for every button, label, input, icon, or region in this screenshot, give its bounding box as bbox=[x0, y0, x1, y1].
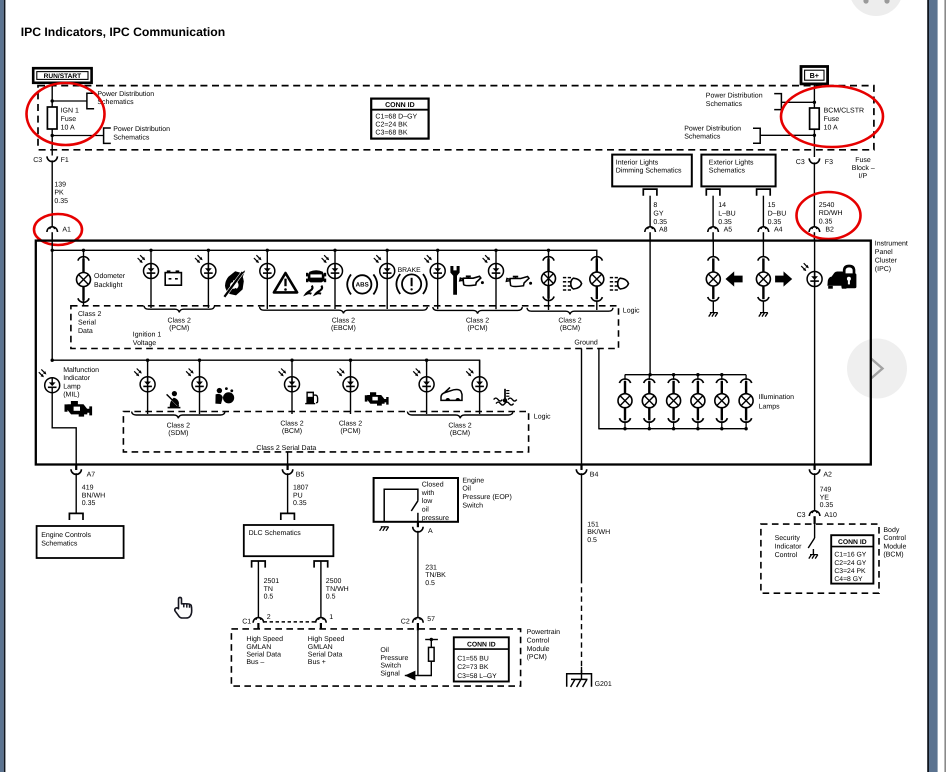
wire 151 BK/WH 0.5 bbox=[581, 473, 583, 578]
svg-text:C3: C3 bbox=[796, 159, 805, 166]
svg-text:(BCM): (BCM) bbox=[560, 324, 580, 332]
svg-text:Logic: Logic bbox=[534, 412, 551, 420]
svg-text:Schematics: Schematics bbox=[709, 167, 746, 175]
airbag system lamp bbox=[134, 371, 138, 375]
red highlight ellipse around fuse F1 bbox=[27, 83, 105, 145]
svg-text:Backlight: Backlight bbox=[94, 281, 122, 289]
svg-text:Serial: Serial bbox=[78, 319, 96, 327]
engine controls schematics box bbox=[37, 526, 124, 558]
wire 749 YE 0.35 bbox=[814, 473, 816, 511]
svg-text:Control: Control bbox=[883, 534, 906, 542]
connector C3 F1 bbox=[47, 156, 57, 161]
svg-text:0.35: 0.35 bbox=[819, 219, 833, 226]
power distribution schematics tap 1 right bbox=[781, 101, 814, 103]
dlc schematics box bbox=[244, 525, 334, 556]
wire RUN/START to fuse bbox=[51, 83, 53, 107]
svg-text:ABS: ABS bbox=[356, 282, 369, 289]
headlamp telltale icon right bbox=[610, 277, 613, 279]
svg-text:C3=24 PK: C3=24 PK bbox=[834, 568, 866, 575]
svg-text:(EBCM): (EBCM) bbox=[331, 324, 356, 332]
svg-text:Interior Lights: Interior Lights bbox=[616, 159, 659, 167]
junction dots left fuse bbox=[51, 99, 54, 102]
svg-text:8: 8 bbox=[653, 202, 657, 209]
svg-text:15: 15 bbox=[768, 202, 776, 209]
brace class 2 bcm row2 bbox=[407, 412, 513, 419]
bracket below dlc right bbox=[314, 561, 328, 568]
headlamp telltale icon left bbox=[563, 277, 566, 279]
svg-text:Class 2: Class 2 bbox=[280, 419, 303, 427]
svg-text:TN/BK: TN/BK bbox=[425, 571, 446, 579]
svg-text:14: 14 bbox=[718, 202, 726, 209]
svg-text:2501: 2501 bbox=[264, 578, 280, 585]
svg-text:C2=24 BK: C2=24 BK bbox=[375, 122, 407, 129]
svg-text:2500: 2500 bbox=[326, 578, 342, 585]
bracket to dlc schematics bbox=[281, 513, 295, 520]
svg-text:IGN 1: IGN 1 bbox=[61, 108, 79, 115]
warning telltale icon bbox=[274, 273, 297, 292]
ground G201 bbox=[581, 667, 583, 679]
CONN ID table bcm bbox=[831, 535, 873, 583]
illumination lamp 1 bbox=[624, 375, 626, 380]
liftgate lamp wire bbox=[426, 360, 428, 414]
svg-text:Serial Data: Serial Data bbox=[246, 650, 281, 658]
svg-text:YE: YE bbox=[820, 494, 830, 501]
svg-text:GMLAN: GMLAN bbox=[246, 644, 271, 651]
MIL engine icon bbox=[65, 401, 93, 417]
svg-text:A10: A10 bbox=[824, 512, 837, 519]
svg-text:A5: A5 bbox=[724, 226, 733, 233]
coolant temp icon bbox=[504, 389, 506, 399]
svg-text:Logic: Logic bbox=[623, 307, 640, 315]
svg-text:Lamps: Lamps bbox=[759, 404, 781, 411]
brace class 2 pcm 2 bbox=[433, 307, 523, 314]
illumination bottom bus bbox=[599, 428, 746, 430]
cluster telltale lamp 2 wire bbox=[207, 250, 209, 308]
sdm lamp 2 wire bbox=[199, 360, 201, 414]
svg-text:BN/WH: BN/WH bbox=[82, 491, 105, 499]
fuse block dashed box bbox=[38, 86, 874, 150]
svg-text:749: 749 bbox=[820, 487, 832, 494]
red highlight ellipse around connector B2 bbox=[797, 192, 861, 239]
svg-text:C3=58 L–GY: C3=58 L–GY bbox=[457, 673, 497, 680]
viewer left blue frame strip bbox=[0, 0, 4, 772]
svg-text:Engine: Engine bbox=[462, 476, 484, 484]
svg-text:(IPC): (IPC) bbox=[875, 265, 891, 273]
cluster telltale lamp 6 bbox=[424, 258, 428, 262]
svg-text:Schematics: Schematics bbox=[113, 133, 150, 141]
svg-text:B+: B+ bbox=[810, 71, 819, 80]
top-right partial button circle bbox=[849, 0, 903, 16]
left turn arrow icon bbox=[726, 271, 743, 286]
service wrench telltale icon bbox=[450, 266, 459, 295]
airbag icon bbox=[217, 388, 222, 393]
svg-text:2: 2 bbox=[267, 614, 271, 621]
dashed wire to G201 bbox=[581, 578, 583, 674]
right turn telltale bulb bbox=[758, 257, 769, 261]
security indicator lamp wire B2 bbox=[814, 241, 816, 465]
svg-text:A7: A7 bbox=[87, 472, 96, 479]
signal arrow bbox=[405, 671, 416, 681]
svg-text:low: low bbox=[422, 497, 433, 505]
svg-text:GMLAN: GMLAN bbox=[308, 644, 333, 651]
svg-text:Power Distribution: Power Distribution bbox=[706, 92, 763, 100]
cluster telltale lamp 1 wire bbox=[150, 250, 152, 308]
power distribution schematics tap 1 left bbox=[52, 100, 87, 102]
connector A eop bbox=[417, 522, 419, 527]
svg-text:Serial Data: Serial Data bbox=[308, 650, 343, 658]
bracket below dlc left bbox=[252, 561, 266, 568]
connector B5 bbox=[287, 465, 289, 471]
cluster telltale lamp 3 wire bbox=[266, 250, 268, 309]
left turn telltale bulb bbox=[708, 257, 719, 261]
junction dots right fuse bbox=[813, 101, 816, 104]
wire below fuse F3 bbox=[813, 129, 815, 157]
left turn ground bbox=[709, 313, 712, 317]
row1 bus wire ignition 1 voltage bbox=[52, 250, 597, 258]
svg-text:C3=68 BK: C3=68 BK bbox=[375, 130, 407, 137]
check engine icon bbox=[365, 392, 389, 405]
mouse cursor bbox=[175, 597, 192, 618]
cluster bulb lamp 8 wire bbox=[548, 250, 550, 310]
svg-text:1807: 1807 bbox=[293, 485, 309, 492]
logic dashed box row1 bbox=[71, 306, 619, 349]
svg-text:L–BU: L–BU bbox=[718, 211, 736, 218]
svg-text:A1: A1 bbox=[62, 226, 71, 233]
engine oil pressure switch box bbox=[374, 478, 458, 522]
pcm internal signal wire bbox=[417, 630, 419, 675]
svg-text:0.35: 0.35 bbox=[82, 500, 96, 507]
ground wire to illumination lamps bbox=[599, 349, 625, 429]
illumination top bus dots bbox=[648, 373, 651, 376]
cluster bulb lamp 8 bbox=[543, 257, 554, 261]
illumination lamp 2 bbox=[648, 375, 650, 380]
cluster telltale lamp 5 wire bbox=[386, 250, 388, 309]
svg-text:Class 2: Class 2 bbox=[339, 419, 362, 427]
check engine lamp bbox=[337, 371, 341, 375]
svg-text:Engine Controls: Engine Controls bbox=[41, 531, 91, 539]
connector A1 bbox=[47, 227, 58, 232]
svg-text:C1=55 BU: C1=55 BU bbox=[457, 656, 489, 663]
fuel icon bbox=[306, 392, 314, 404]
svg-text:C1: C1 bbox=[242, 618, 251, 625]
svg-text:Class 2: Class 2 bbox=[558, 316, 581, 324]
svg-text:Schematics: Schematics bbox=[41, 539, 78, 547]
svg-text:Signal: Signal bbox=[380, 669, 400, 677]
connector A4 bbox=[758, 227, 769, 232]
Interior Lights Dimming Schematics box bbox=[612, 155, 692, 187]
airbag system lamp wire bbox=[147, 360, 149, 414]
svg-text:(PCM): (PCM) bbox=[340, 427, 360, 435]
powertrain control module dashed box bbox=[231, 629, 520, 686]
svg-text:C3: C3 bbox=[797, 512, 806, 519]
instrument panel cluster box bbox=[36, 241, 871, 465]
svg-text:C2: C2 bbox=[401, 618, 410, 625]
svg-text:PU: PU bbox=[293, 492, 303, 499]
svg-text:CONN ID: CONN ID bbox=[385, 102, 415, 109]
svg-text:0.5: 0.5 bbox=[425, 580, 435, 587]
wire 14 L-BU 0.35 bbox=[712, 196, 714, 227]
svg-text:Oil: Oil bbox=[462, 485, 471, 493]
svg-text:57: 57 bbox=[427, 616, 435, 623]
bracket under exterior lights box left bbox=[706, 189, 720, 196]
svg-text:Control: Control bbox=[775, 551, 798, 559]
svg-text:(BCM): (BCM) bbox=[883, 551, 903, 559]
seat belt icon bbox=[172, 391, 177, 396]
svg-text:419: 419 bbox=[82, 485, 94, 492]
svg-text:Power Distribution: Power Distribution bbox=[97, 90, 154, 98]
svg-text:0.5: 0.5 bbox=[264, 594, 274, 601]
coolant lamp wire bbox=[479, 360, 481, 414]
brace class 2 ebcm bbox=[260, 307, 428, 314]
Exterior Lights Schematics box bbox=[701, 155, 775, 187]
connector A2 bbox=[813, 465, 815, 471]
svg-text:Power Distribution: Power Distribution bbox=[684, 124, 741, 132]
cluster telltale lamp 1 bbox=[138, 258, 142, 262]
svg-text:GY: GY bbox=[653, 211, 663, 218]
wire 8 GY 0.35 bbox=[649, 196, 651, 227]
svg-text:Class 2: Class 2 bbox=[168, 316, 191, 324]
svg-text:F3: F3 bbox=[825, 159, 833, 166]
svg-text:0.35: 0.35 bbox=[653, 219, 667, 226]
svg-text:Class 2: Class 2 bbox=[466, 316, 489, 324]
illumination bottom bus dots bbox=[623, 427, 626, 430]
svg-text:231: 231 bbox=[425, 564, 437, 571]
liftgate car icon bbox=[441, 389, 462, 400]
svg-text:151: 151 bbox=[587, 521, 599, 528]
security telltale icon bbox=[225, 271, 244, 295]
fuse F3 BCM/CLSTR 10A bbox=[810, 108, 820, 129]
brace class 2 sdm bbox=[132, 412, 225, 419]
illumination lamp 4 bbox=[697, 375, 699, 380]
right turn ground bbox=[759, 313, 762, 317]
svg-text:Switch: Switch bbox=[462, 501, 483, 509]
svg-text:pressure: pressure bbox=[422, 515, 449, 522]
svg-text:IPC Indicators, IPC Communicat: IPC Indicators, IPC Communication bbox=[21, 25, 226, 39]
svg-text:0.35: 0.35 bbox=[718, 219, 732, 226]
connector C1 pin 2 bbox=[253, 618, 264, 623]
svg-text:(BCM): (BCM) bbox=[450, 429, 470, 437]
svg-text:Security: Security bbox=[775, 534, 801, 542]
svg-text:C2=73 BK: C2=73 BK bbox=[457, 664, 489, 671]
svg-text:BRAKE: BRAKE bbox=[398, 267, 422, 274]
svg-text:139: 139 bbox=[54, 181, 66, 188]
ABS telltale icon bbox=[347, 274, 351, 294]
svg-text:Ignition 1: Ignition 1 bbox=[133, 331, 162, 339]
red highlight ellipse around connector A1 bbox=[34, 214, 82, 245]
connector B2 bbox=[809, 227, 820, 232]
svg-text:Class 2: Class 2 bbox=[167, 421, 190, 429]
svg-text:Ground: Ground bbox=[574, 339, 597, 347]
svg-text:Exterior Lights: Exterior Lights bbox=[709, 159, 754, 167]
svg-text:Class 2: Class 2 bbox=[448, 421, 471, 429]
svg-text:CONN ID: CONN ID bbox=[838, 539, 867, 546]
svg-text:I/P: I/P bbox=[859, 172, 868, 180]
svg-text:Cluster: Cluster bbox=[875, 256, 898, 264]
svg-text:A4: A4 bbox=[774, 226, 783, 233]
svg-text:Module: Module bbox=[883, 542, 906, 550]
connector A8 bbox=[645, 227, 656, 232]
svg-text:Voltage: Voltage bbox=[133, 339, 156, 347]
cluster telltale lamp 3 bbox=[254, 258, 258, 262]
svg-text:Body: Body bbox=[883, 526, 899, 534]
svg-text:Module: Module bbox=[527, 645, 550, 653]
svg-text:Lamp: Lamp bbox=[63, 383, 81, 390]
body control module dashed box bbox=[761, 524, 879, 593]
cluster telltale lamp 4 bbox=[322, 258, 326, 262]
svg-text:Fuse: Fuse bbox=[824, 116, 840, 123]
svg-text:Malfunction: Malfunction bbox=[63, 366, 99, 374]
right turn arrow icon bbox=[775, 271, 792, 286]
cluster telltale lamp 6 wire bbox=[437, 250, 439, 309]
svg-text:Powertrain: Powertrain bbox=[527, 628, 561, 636]
svg-text:0.35: 0.35 bbox=[768, 219, 782, 226]
svg-text:Indicator: Indicator bbox=[63, 374, 91, 382]
bracket under exterior lights box right bbox=[757, 189, 771, 196]
brace class 2 bcm row1 bbox=[527, 308, 613, 315]
svg-text:Indicator: Indicator bbox=[775, 543, 803, 551]
cluster telltale lamp 5 bbox=[374, 258, 378, 262]
cluster telltale lamp 7 wire bbox=[495, 250, 497, 309]
svg-text:C3: C3 bbox=[33, 157, 42, 164]
svg-text:0.35: 0.35 bbox=[54, 198, 68, 205]
svg-text:(PCM): (PCM) bbox=[169, 324, 189, 332]
oil can telltale icon 1 bbox=[460, 276, 481, 285]
fuel lamp wire bbox=[291, 360, 293, 414]
viewer right frame strips bbox=[927, 0, 929, 772]
bcm internal switch bbox=[814, 524, 816, 538]
svg-text:Schematics: Schematics bbox=[684, 133, 721, 141]
illumination lamp 6 bbox=[745, 375, 747, 380]
connector C3 F3 bbox=[809, 158, 819, 163]
cluster telltale lamp 4 wire bbox=[334, 250, 336, 309]
svg-text:2540: 2540 bbox=[819, 202, 835, 209]
svg-text:Block –: Block – bbox=[852, 164, 875, 172]
RUN/START box bbox=[33, 68, 91, 83]
svg-text:D–BU: D–BU bbox=[768, 211, 787, 218]
svg-text:Illumination: Illumination bbox=[759, 393, 795, 401]
svg-text:Odometer: Odometer bbox=[94, 272, 126, 280]
security car lock icon bbox=[827, 272, 851, 286]
eop internal ground bbox=[380, 527, 383, 531]
svg-text:Closed: Closed bbox=[422, 481, 444, 489]
svg-text:Switch: Switch bbox=[380, 662, 401, 670]
wire 2501 TN 0.5 bbox=[257, 561, 259, 618]
svg-text:PK: PK bbox=[54, 190, 64, 197]
bracket to engine controls bbox=[69, 513, 83, 520]
svg-text:Class 2 Serial Data: Class 2 Serial Data bbox=[256, 444, 316, 452]
eop internal circuit bbox=[384, 489, 418, 522]
fuel lamp bbox=[279, 371, 283, 375]
svg-text:RD/WH: RD/WH bbox=[819, 209, 843, 217]
svg-text:10 A: 10 A bbox=[61, 124, 75, 131]
svg-text:Instrument: Instrument bbox=[875, 241, 908, 248]
power distribution schematics tap 2 left bbox=[52, 135, 103, 137]
svg-text:10 A: 10 A bbox=[824, 124, 838, 131]
svg-text:Schematics: Schematics bbox=[706, 100, 743, 108]
svg-text:TN: TN bbox=[264, 586, 273, 593]
svg-text:(MIL): (MIL) bbox=[63, 391, 79, 399]
illumination lamp 5 bbox=[721, 375, 723, 380]
svg-text:Pressure (EOP): Pressure (EOP) bbox=[462, 493, 511, 501]
right turn telltale wire bbox=[762, 241, 764, 257]
svg-text:B2: B2 bbox=[825, 226, 834, 233]
svg-text:A: A bbox=[428, 528, 433, 535]
row2 bus junction dots bbox=[51, 359, 54, 362]
cluster bulb lamp 9 bbox=[591, 257, 602, 261]
connector C2 pin 57 bbox=[413, 618, 424, 623]
dashed bus wire between pins bbox=[264, 621, 316, 623]
check engine lamp wire bbox=[350, 360, 352, 414]
coolant lamp bbox=[466, 371, 470, 375]
svg-text:Bus +: Bus + bbox=[308, 659, 326, 666]
svg-text:Oil: Oil bbox=[380, 646, 389, 654]
connector A7 bbox=[75, 465, 77, 471]
wire class2 to B5 bbox=[287, 452, 289, 465]
svg-text:G201: G201 bbox=[595, 681, 612, 688]
wire A8 to illumination bus bbox=[649, 241, 651, 375]
svg-text:DLC Schematics: DLC Schematics bbox=[249, 529, 302, 537]
row1 bus junction dots bbox=[51, 249, 54, 252]
B+ box bbox=[801, 67, 828, 84]
connector A5 bbox=[708, 227, 719, 232]
svg-text:(PCM): (PCM) bbox=[467, 324, 487, 332]
svg-text:Power Distribution: Power Distribution bbox=[113, 125, 170, 133]
bracket under interior lights box bbox=[643, 189, 657, 196]
wire 15 D-BU 0.35 bbox=[762, 196, 764, 227]
CONN ID table pcm bbox=[454, 637, 509, 681]
wire MIL to A7 bbox=[52, 393, 76, 465]
svg-text:BK/WH: BK/WH bbox=[587, 528, 610, 536]
svg-text:High Speed: High Speed bbox=[246, 635, 283, 643]
CONN ID table top bbox=[371, 99, 428, 139]
svg-text:TN/WH: TN/WH bbox=[326, 585, 349, 593]
svg-text:1: 1 bbox=[329, 614, 333, 621]
svg-text:F1: F1 bbox=[61, 157, 69, 164]
pcm pull-up resistor bbox=[429, 647, 435, 661]
svg-text:Control: Control bbox=[527, 637, 550, 645]
red highlight ellipse around fuse F3 bbox=[781, 86, 883, 147]
malfunction indicator lamp bbox=[39, 372, 43, 376]
svg-text:Panel: Panel bbox=[875, 248, 893, 256]
svg-text:C1=16 GY: C1=16 GY bbox=[834, 552, 866, 559]
battery telltale icon bbox=[165, 273, 181, 286]
svg-text:C1=68 D–GY: C1=68 D–GY bbox=[375, 114, 417, 121]
svg-text:C2=24 GY: C2=24 GY bbox=[834, 560, 866, 567]
wire 231 TN/BK 0.5 bbox=[417, 531, 419, 618]
wire A1 into cluster bbox=[51, 241, 53, 361]
svg-text:BCM/CLSTR: BCM/CLSTR bbox=[824, 107, 864, 115]
svg-text:Class 2: Class 2 bbox=[332, 316, 355, 324]
ground wire to B4 bbox=[581, 349, 583, 465]
odometer backlight bulb bbox=[78, 257, 89, 261]
svg-text:RUN/START: RUN/START bbox=[44, 73, 82, 80]
wire 2500 TN/WH 0.5 bbox=[320, 561, 322, 618]
cluster telltale lamp 7 bbox=[483, 258, 487, 262]
svg-text:0.5: 0.5 bbox=[326, 594, 336, 601]
fuse F1 IGN 1 10A bbox=[47, 107, 57, 129]
illumination top bus bbox=[625, 374, 746, 376]
svg-text:(SDM): (SDM) bbox=[168, 429, 188, 437]
wire 139 PK 0.35 bbox=[51, 168, 53, 227]
liftgate lamp bbox=[413, 371, 417, 375]
svg-text:Bus –: Bus – bbox=[246, 659, 264, 666]
wire below fuse F1 bbox=[51, 129, 53, 156]
svg-text:0.5: 0.5 bbox=[587, 537, 597, 544]
svg-text:C4=8 GY: C4=8 GY bbox=[834, 576, 863, 583]
oil can telltale icon 2 bbox=[506, 277, 529, 287]
svg-text:(PCM): (PCM) bbox=[527, 653, 547, 661]
svg-text:A8: A8 bbox=[659, 226, 668, 233]
